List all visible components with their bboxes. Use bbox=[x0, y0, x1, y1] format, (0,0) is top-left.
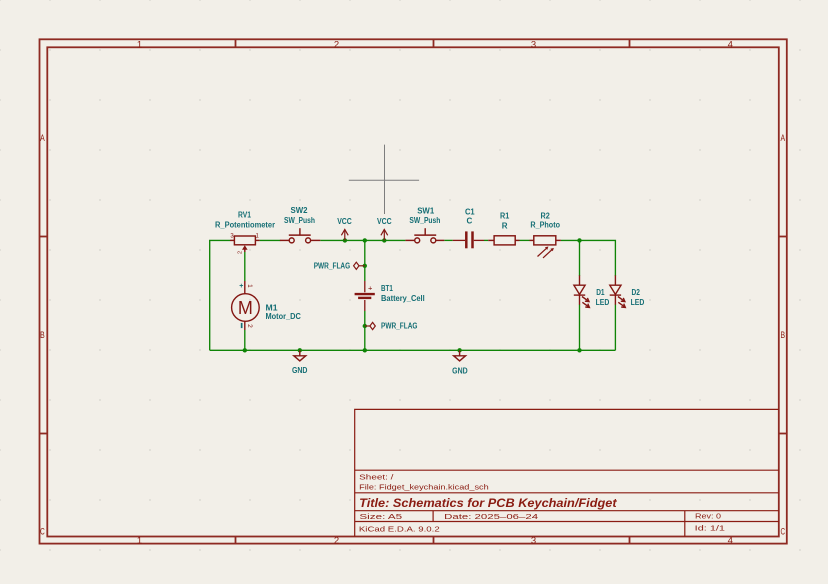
junction D1 top bbox=[577, 238, 581, 242]
svg-text:1: 1 bbox=[137, 535, 142, 546]
title block bbox=[355, 409, 779, 536]
svg-text:Title: Schematics for PCB Keyc: Title: Schematics for PCB Keychain/Fidge… bbox=[359, 498, 618, 510]
svg-text:4: 4 bbox=[728, 535, 733, 546]
svg-text:Size: A5: Size: A5 bbox=[359, 512, 402, 521]
svg-text:+: + bbox=[239, 283, 243, 290]
push button SW2 bbox=[280, 206, 320, 243]
svg-text:Date: 2025–06–24: Date: 2025–06–24 bbox=[444, 512, 538, 521]
power flag PWR_FLAG bottom bbox=[365, 321, 418, 330]
svg-text:VCC: VCC bbox=[337, 217, 352, 226]
junction VCC left bbox=[343, 238, 347, 242]
svg-text:GND: GND bbox=[292, 366, 308, 375]
wire: D1 anode branch bbox=[579, 240, 581, 276]
potentiometer RV1 bbox=[215, 211, 275, 255]
svg-text:R1: R1 bbox=[500, 212, 510, 221]
svg-text:C: C bbox=[467, 216, 473, 225]
svg-text:1: 1 bbox=[246, 284, 253, 288]
junction M1 bottom bbox=[243, 348, 247, 352]
ground GND right bbox=[452, 350, 468, 375]
svg-text:R_Photo: R_Photo bbox=[530, 221, 560, 230]
ground GND left bbox=[292, 350, 308, 375]
junction BT1 bottom bbox=[363, 348, 367, 352]
svg-text:D1: D1 bbox=[596, 288, 605, 297]
motor M1 bbox=[232, 281, 301, 330]
svg-text:Battery_Cell: Battery_Cell bbox=[381, 294, 425, 303]
junction PWR_FLAG bottom bbox=[363, 324, 367, 328]
wire: D2 cathode to bottom rail bbox=[614, 305, 616, 351]
wire: VCC rail to BT1 bbox=[364, 240, 366, 281]
resistor R1 bbox=[488, 212, 519, 245]
junction GND right bbox=[457, 348, 461, 352]
origin crosshair bbox=[349, 145, 419, 214]
svg-text:B: B bbox=[781, 330, 786, 341]
svg-text:VCC: VCC bbox=[377, 217, 392, 226]
svg-text:R: R bbox=[502, 221, 508, 230]
svg-text:R2: R2 bbox=[541, 212, 551, 221]
junction battery top bbox=[363, 238, 367, 242]
svg-text:C1: C1 bbox=[465, 207, 475, 216]
title block text bbox=[359, 472, 725, 533]
wire: bottom rail bbox=[210, 349, 616, 351]
svg-text:SW_Push: SW_Push bbox=[409, 216, 440, 225]
svg-text:KiCad E.D.A. 9.0.2: KiCad E.D.A. 9.0.2 bbox=[359, 524, 440, 533]
svg-text:SW_Push: SW_Push bbox=[284, 216, 315, 225]
power symbol VCC left bbox=[337, 217, 352, 241]
svg-text:2: 2 bbox=[334, 535, 339, 546]
photoresistor R2 bbox=[530, 212, 561, 258]
svg-text:C: C bbox=[40, 527, 45, 538]
svg-text:+: + bbox=[368, 284, 373, 293]
svg-text:2: 2 bbox=[238, 251, 244, 254]
LED D1 bbox=[574, 275, 610, 307]
power symbol VCC right bbox=[377, 217, 392, 241]
svg-text:4: 4 bbox=[728, 39, 733, 50]
svg-text:GND: GND bbox=[452, 367, 468, 376]
svg-text:R_Potentiometer: R_Potentiometer bbox=[215, 220, 275, 229]
wire: R2 to top-right corner and D2 anode bbox=[561, 240, 616, 276]
svg-text:A: A bbox=[40, 133, 45, 144]
svg-text:A: A bbox=[781, 133, 786, 144]
wire: RV1 to SW2 bbox=[260, 239, 281, 241]
svg-text:RV1: RV1 bbox=[238, 211, 251, 220]
svg-text:C: C bbox=[781, 527, 786, 538]
svg-text:File: Fidget_keychain.kicad_sc: File: Fidget_keychain.kicad_sch bbox=[359, 483, 489, 492]
wire: D1 cathode to bottom rail bbox=[579, 305, 581, 351]
svg-text:LED: LED bbox=[596, 298, 610, 307]
svg-text:3: 3 bbox=[531, 535, 536, 546]
page border frame bbox=[40, 39, 788, 543]
svg-text:3: 3 bbox=[531, 39, 536, 50]
wire: R1 to R2 bbox=[520, 239, 530, 241]
wire: M1 to bottom rail bbox=[244, 330, 246, 350]
wire: SW2 to SW1 bbox=[320, 239, 405, 241]
svg-text:BT1: BT1 bbox=[381, 284, 393, 293]
svg-text:Id: 1/1: Id: 1/1 bbox=[695, 524, 725, 533]
svg-text:LED: LED bbox=[631, 298, 645, 307]
LED D2 bbox=[610, 275, 645, 307]
svg-text:SW1: SW1 bbox=[417, 206, 435, 215]
svg-text:1: 1 bbox=[137, 39, 142, 50]
svg-text:SW2: SW2 bbox=[291, 206, 309, 215]
svg-text:Rev: 0: Rev: 0 bbox=[695, 511, 721, 520]
junction VCC right bbox=[382, 238, 386, 242]
wire: C1 to R1 bbox=[484, 239, 488, 241]
svg-text:PWR_FLAG: PWR_FLAG bbox=[381, 321, 418, 330]
wire: RV1 wiper to M1 bbox=[244, 252, 246, 281]
wire: top rail left corner + left rail bbox=[210, 240, 230, 350]
svg-text:D2: D2 bbox=[632, 288, 641, 297]
junction PWR_FLAG top bbox=[363, 264, 367, 268]
junction GND left bbox=[298, 348, 302, 352]
svg-text:PWR_FLAG: PWR_FLAG bbox=[314, 262, 351, 271]
wire: BT1 to bottom rail bbox=[364, 311, 366, 350]
power flag PWR_FLAG top bbox=[314, 262, 365, 271]
svg-text:2: 2 bbox=[334, 39, 339, 50]
push button SW1 bbox=[405, 206, 444, 243]
svg-text:2: 2 bbox=[246, 324, 253, 328]
junction D1 bottom bbox=[577, 348, 581, 352]
wire: SW1 to C1 bbox=[444, 239, 452, 241]
svg-text:Motor_DC: Motor_DC bbox=[266, 312, 302, 321]
svg-text:B: B bbox=[40, 330, 45, 341]
capacitor C1 bbox=[453, 207, 484, 248]
battery BT1 bbox=[355, 281, 425, 311]
svg-text:M: M bbox=[238, 298, 253, 318]
svg-text:Sheet: /: Sheet: / bbox=[359, 472, 394, 481]
